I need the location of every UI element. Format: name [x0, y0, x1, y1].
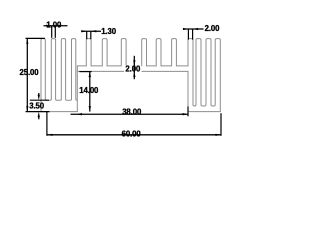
dim 38.00 right extension line — [187, 107, 189, 117]
dim 2.00 (web) text — [124, 66, 141, 73]
heatsink extrusion profile outline — [41, 39, 220, 112]
dim 1.30 extension lines — [86, 31, 88, 39]
dim 25.00 top tick — [26, 37, 45, 39]
dim 1.30 line with outside arrows — [81, 30, 101, 32]
dim 1.00 extension lines — [51, 26, 53, 38]
dim 3.50 arrows — [38, 93, 40, 95]
svg-text:60.00: 60.00 — [122, 130, 142, 139]
svg-text:25.00: 25.00 — [19, 68, 39, 77]
svg-text:2.00: 2.00 — [205, 24, 221, 33]
dim 1.00 line with outside arrows — [44, 25, 68, 27]
dim 2.00 (top right) extension lines — [187, 29, 189, 40]
dim 25.00 bottom tick — [26, 111, 50, 113]
svg-text:2.00: 2.00 — [125, 65, 141, 74]
svg-text:1.30: 1.30 — [101, 27, 117, 36]
svg-text:1.00: 1.00 — [46, 21, 62, 30]
dim 60.00 line with arrows — [47, 134, 221, 136]
dim 25.00 line with arrows — [26, 38, 28, 111]
dim 3.50 top tick — [30, 99, 49, 101]
svg-text:3.50: 3.50 — [29, 102, 45, 111]
dim 14.00 line with arrows — [89, 72, 91, 112]
dim 2.00 (top right) line with outside arrows — [184, 28, 203, 30]
dim 38.00 line with arrows — [71, 113, 189, 115]
svg-text:38.00: 38.00 — [122, 108, 142, 117]
dim 2.00 (web) line and arrows — [133, 56, 135, 79]
dim 60.00 extension lines — [46, 112, 48, 136]
dim 14.00 top tick — [79, 71, 91, 73]
